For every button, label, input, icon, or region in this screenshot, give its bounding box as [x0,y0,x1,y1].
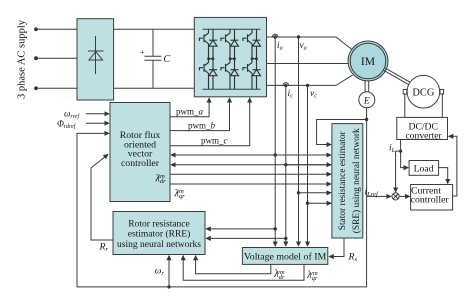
diode D3 (bottom antiparallel diode leg 1) [209,70,217,76]
node va tap [297,35,300,38]
diode D4 (top antiparallel diode leg 2) [231,40,239,46]
node phase B supply terminal [34,56,38,60]
node ic tap [283,83,289,86]
DCG right brush [440,89,444,94]
svg-text:converter: converter [405,130,442,141]
svg-text:Load: Load [414,164,434,175]
induction motor IM [348,41,388,81]
summing junction [392,193,399,200]
svg-text:ωr: ωr [155,266,165,277]
svg-text:iL: iL [389,144,396,155]
wire speed signal from E down and along bottom to controller [77,108,367,287]
wire inverter phase c output [267,75,353,85]
svg-text:C: C [164,54,171,65]
DC generator DCG [407,75,440,108]
wire vc vertical drop to voltage model [307,85,309,246]
svg-text:estimator (RRE): estimator (RRE) [128,229,191,240]
svg-text:ωrref: ωrref [64,109,80,121]
wire ic vertical drop to voltage model [285,85,287,246]
wire lambda_dr_vm from voltage model to RRE [196,256,271,274]
DCG left brush [403,89,407,94]
rectifier block [77,19,114,100]
wire speed signal E to SRE [317,120,367,145]
capacitor C [144,29,161,88]
transistor Q1 (top IGBT leg 1) [199,29,217,59]
shaft IM to E (double line) [364,81,366,92]
rotor flux oriented vector controller box [110,103,170,202]
node leg 3 midpoint junctions [251,58,254,61]
svg-text:+: + [140,48,145,57]
wire lambda_dr_im to SRE [170,173,331,175]
node ic RRE tap [284,237,287,240]
wire inverter phase b output [267,63,349,65]
svg-text:λqrim: λqrim [174,188,186,200]
svg-text:(SRE) using neural network: (SRE) using neural network [351,128,362,233]
wire pwm_b to inverter [170,98,230,131]
speed encoder E [359,92,375,108]
svg-text:controller: controller [411,195,450,206]
wire va to SRE [299,192,332,194]
node ia on feedback line [274,153,277,156]
transistor Q3 (top IGBT leg 2) [221,29,239,59]
wire DCG right terminal down to DC/DC [441,94,443,117]
svg-text:Rs: Rs [348,252,358,264]
wire ic into RRE right edge [206,237,286,239]
node wr junction on bottom line [167,285,170,288]
diode D2 (top antiparallel diode leg 1) [209,40,217,46]
svg-text:Φrdref: Φrdref [57,119,77,131]
transistor Q4 (bottom IGBT leg 2) [221,59,239,89]
svg-text:iLref: iLref [365,188,379,199]
wire leg 1 midpoint link [209,58,214,60]
svg-text:3 phase AC supply: 3 phase AC supply [16,19,27,99]
rotor resistance estimator RRE box [113,212,205,255]
wire ic feedback to controller and SRE [171,164,331,166]
node ia RRE tap [274,227,277,230]
node leg 2 midpoint junctions [229,58,232,61]
svg-text:pwm_a: pwm_a [176,107,204,117]
shaft IM to DCG (double line) [384,70,409,84]
node ia tap [272,34,278,37]
node phase A supply terminal [34,27,38,31]
wire iL branch to summing junction [396,151,401,192]
node vc on line [306,202,309,205]
wire vc to SRE [308,202,332,204]
diode D1 inside rectifier [88,36,104,74]
wire leg 3 midpoint link [252,58,257,60]
wire wrref input arrow [86,113,109,115]
node speed line junction [365,118,368,121]
svg-text:ia: ia [277,41,283,52]
diode D6 (top antiparallel diode leg 3) [253,40,261,46]
svg-text:IM: IM [361,55,375,68]
svg-text:controller: controller [121,158,160,169]
inverter IGBT/diode cells [199,29,260,89]
svg-text:Stator resistance estimator: Stator resistance estimator [338,130,348,230]
svg-text:va: va [300,41,307,52]
wire current controller feedback to DC/DC [449,136,457,196]
svg-text:ic: ic [288,89,294,100]
wire inverter phase a output [267,37,353,50]
Current controller box [411,185,453,211]
wire pwm_a to inverter [170,98,209,117]
wire wr up into RRE [168,256,170,287]
wire Rs from SRE to voltage model [329,238,344,257]
svg-text:λdrvm: λdrvm [273,269,285,281]
svg-text:Rr: Rr [99,241,109,253]
svg-text:Voltage model of IM: Voltage model of IM [244,251,327,262]
svg-text:λdrim: λdrim [155,173,167,185]
wire summing junction to current controller [399,195,409,197]
wire ia feedback to controller and SRE [171,154,331,156]
wire supply phase A [36,28,77,30]
svg-text:λqrvm: λqrvm [306,270,318,282]
wire Rr from RRE to controller [91,154,113,240]
svg-text:vc: vc [310,89,317,100]
wire DC bus top rail [114,28,195,30]
wire lambda_qr_im to SRE [170,183,331,185]
wire leg 2 midpoint link [230,58,235,60]
node vc tap [306,84,309,87]
node iL tap [399,150,402,153]
wire pwm_c to inverter [170,98,250,146]
wire ia into RRE right edge [206,228,275,230]
transistor Q2 (bottom IGBT leg 1) [199,59,217,89]
inverter block [194,17,266,96]
DC/DC converter box [397,117,448,139]
wire Load output to current controller top [439,168,448,184]
node phase C supply terminal [34,86,38,90]
voltage model of IM box [242,248,327,265]
svg-text:pwm_c: pwm_c [201,136,228,146]
wire phirdref input arrow [86,122,109,124]
diode D7 (bottom antiparallel diode leg 3) [253,70,261,76]
wire DC bus bottom rail [114,87,195,89]
node va on line [297,191,300,194]
wire DCG left terminal down to DC/DC [404,94,406,117]
svg-text:pwm_b: pwm_b [188,121,216,131]
stator resistance estimator SRE box [332,124,363,238]
diode D5 (bottom antiparallel diode leg 2) [231,70,239,76]
transistor Q6 (bottom IGBT leg 3) [243,59,261,89]
svg-text:DCG: DCG [412,87,434,98]
svg-text:E: E [363,96,370,106]
node leg 1 midpoint junctions [207,58,210,61]
wire iLref input arrow [366,195,391,197]
transistor Q5 (top IGBT leg 3) [243,29,261,59]
wire iL from DC/DC down to Load [401,140,409,168]
inverter internal bottom rail [203,88,261,90]
Load box [409,161,439,176]
wire va vertical drop to voltage model [298,37,300,246]
svg-text:Rotor resistance: Rotor resistance [128,220,189,230]
node ic on feedback line [284,163,287,166]
wire ia vertical drop to voltage model [274,37,276,246]
svg-text:using neural networks: using neural networks [117,240,201,250]
wire supply phase B [36,57,77,59]
inverter internal top rail [203,28,261,30]
wire lambda_qr_vm from voltage model to RRE [183,256,304,281]
wire supply phase C [36,87,77,89]
